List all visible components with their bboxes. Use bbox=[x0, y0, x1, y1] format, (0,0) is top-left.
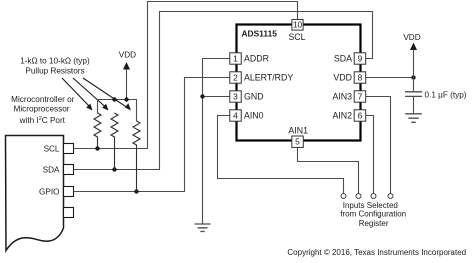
svg-text:0.1 µF (typ): 0.1 µF (typ) bbox=[425, 90, 467, 99]
svg-text:ADDR: ADDR bbox=[244, 53, 269, 63]
wire AIN3 net: pin 7 to input terminal bbox=[366, 97, 391, 194]
ground symbol (left) bbox=[195, 224, 211, 232]
junction dot VDD/cap bbox=[411, 75, 415, 79]
svg-text:AIN0: AIN0 bbox=[244, 111, 264, 121]
svg-text:ADS1115: ADS1115 bbox=[242, 28, 278, 38]
junction dot rail/VDD drop bbox=[124, 97, 128, 101]
pin 9 SDA bbox=[354, 53, 366, 64]
micro pin SDA bbox=[64, 165, 74, 175]
svg-text:with I2C Port: with I2C Port bbox=[19, 116, 66, 125]
wire AIN1 net: pin 5 to input terminal bbox=[298, 147, 359, 193]
micro pin SCL bbox=[64, 144, 74, 154]
svg-text:GPIO: GPIO bbox=[39, 187, 59, 196]
wire GPIO net: micro GPIO to pin 2 ALERT/RDY bbox=[74, 78, 230, 192]
wire SCL net: micro SCL to pin 10 bbox=[74, 2, 298, 149]
svg-text:AIN3: AIN3 bbox=[332, 92, 352, 102]
svg-text:AIN2: AIN2 bbox=[332, 111, 352, 121]
junction dot GND/ADDR bbox=[200, 94, 204, 98]
pin 8 VDD bbox=[354, 72, 366, 83]
input terminal circle AIN2 bbox=[371, 194, 376, 199]
pin 3 GND bbox=[230, 91, 242, 102]
junction dot R1 bottom on SCL bbox=[95, 146, 99, 150]
svg-text:SDA: SDA bbox=[334, 53, 352, 63]
micro pin unlabeled bbox=[64, 208, 74, 218]
svg-text:1: 1 bbox=[233, 53, 238, 63]
svg-text:8: 8 bbox=[358, 73, 363, 83]
annotation arrow 2 bbox=[73, 78, 106, 107]
svg-text:SCL: SCL bbox=[44, 144, 60, 153]
svg-text:VDD: VDD bbox=[333, 73, 352, 83]
svg-text:4: 4 bbox=[233, 111, 238, 121]
resistor R3 pullup bbox=[133, 121, 140, 192]
svg-text:9: 9 bbox=[358, 53, 363, 63]
svg-text:1-kΩ to 10-kΩ (typ): 1-kΩ to 10-kΩ (typ) bbox=[20, 57, 90, 66]
pin 5 AIN1 bbox=[292, 136, 304, 147]
ground symbol (right) bbox=[405, 114, 422, 123]
op IC U1 ADS1115 body bbox=[237, 25, 361, 141]
annotation arrow 1 bbox=[62, 78, 90, 107]
svg-text:ALERT/RDY: ALERT/RDY bbox=[244, 73, 293, 83]
svg-text:Inputs Selected: Inputs Selected bbox=[343, 201, 398, 210]
microcontroller block bbox=[6, 136, 64, 251]
svg-text:AIN1: AIN1 bbox=[288, 125, 308, 135]
resistor R1 pullup bbox=[94, 113, 101, 149]
wire ADDR/GND net to ground bbox=[203, 59, 230, 224]
svg-text:Copyright © 2016, Texas Instru: Copyright © 2016, Texas Instruments Inco… bbox=[287, 248, 466, 257]
capacitor C 0.1uF bbox=[405, 92, 422, 97]
pin 10 SCL bbox=[292, 20, 303, 31]
pin 1 ADDR bbox=[230, 53, 242, 64]
wire SDA net: micro SDA to pin 9 bbox=[74, 12, 373, 170]
input terminal circle AIN1 bbox=[356, 194, 361, 199]
svg-text:Pullup Resistors: Pullup Resistors bbox=[25, 66, 84, 75]
svg-text:VDD: VDD bbox=[119, 51, 136, 60]
pin 6 AIN2 bbox=[354, 110, 366, 121]
VDD rail over pullups bbox=[98, 100, 137, 122]
svg-text:GND: GND bbox=[244, 92, 264, 102]
pin 7 AIN3 bbox=[354, 91, 366, 102]
junction dot rail/R2 top bbox=[112, 97, 116, 101]
input terminal circle AIN3 bbox=[388, 194, 393, 199]
svg-text:SCL: SCL bbox=[288, 32, 305, 42]
wire AIN0 net: pin 4 to input terminal bbox=[218, 116, 344, 194]
micro pin GPIO bbox=[64, 187, 74, 197]
resistor R2 pullup bbox=[111, 113, 118, 170]
svg-text:2: 2 bbox=[233, 73, 238, 83]
svg-text:SDA: SDA bbox=[43, 166, 60, 175]
pin 2 ALERT/RDY bbox=[230, 72, 242, 83]
wire VDD net: pin 8 to supply bbox=[366, 77, 414, 79]
svg-text:Microcontroller or: Microcontroller or bbox=[11, 95, 75, 104]
junction dot R3 bottom on GPIO bbox=[134, 189, 138, 193]
input terminal circle AIN0 bbox=[341, 194, 346, 199]
junction dot R2 bottom on SDA bbox=[112, 167, 116, 171]
annotation arrow 3 bbox=[83, 78, 128, 108]
svg-text:7: 7 bbox=[358, 92, 363, 102]
pin 4 AIN0 bbox=[230, 110, 242, 121]
svg-text:6: 6 bbox=[358, 111, 363, 121]
wire AIN2 net: pin 6 to input terminal bbox=[366, 116, 374, 194]
svg-text:Microprocessor: Microprocessor bbox=[14, 104, 70, 113]
svg-text:Register: Register bbox=[359, 219, 389, 228]
svg-text:VDD: VDD bbox=[403, 33, 420, 42]
svg-text:10: 10 bbox=[293, 20, 303, 30]
svg-text:from Configuration: from Configuration bbox=[340, 210, 406, 219]
svg-text:3: 3 bbox=[233, 92, 238, 102]
svg-text:5: 5 bbox=[295, 137, 300, 147]
